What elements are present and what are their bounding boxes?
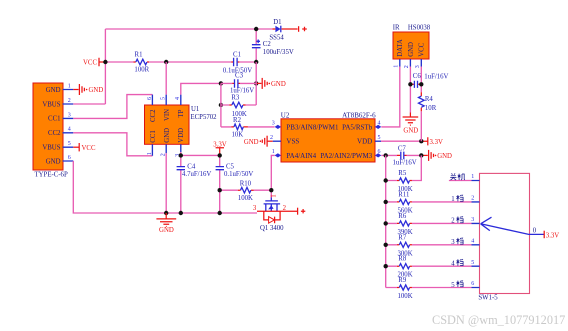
wire pin4 CC2 to U1 pin1 [73,133,152,156]
svg-text:5: 5 [161,97,167,100]
svg-text:R3: R3 [231,95,240,102]
svg-text:ECP5702: ECP5702 [191,114,218,121]
wire top rail y29 [105,28,272,30]
svg-text:C3: C3 [235,73,244,80]
svg-text:C1: C1 [233,51,241,58]
wire IR VCC col [420,67,422,142]
ground earth (IR GND) [403,113,419,135]
terminal P+ (top right) [299,26,307,32]
U1 pin numbers (rotated) [147,97,181,157]
svg-text:Q1 3400: Q1 3400 [260,225,284,232]
svg-text:0.1uF/50V: 0.1uF/50V [224,171,253,178]
svg-text:10R: 10R [425,105,437,112]
resistor R4 10R [419,92,437,112]
svg-text:PA4/AIN4: PA4/AIN4 [286,152,316,160]
svg-text:5: 5 [471,260,474,266]
svg-text:R9: R9 [398,277,407,284]
U1 pin names (rotated) [150,109,185,143]
svg-text:AT8B62F-6: AT8B62F-6 [342,111,376,119]
ir-receiver IR HS0038 body [393,32,429,59]
svg-text:6: 6 [147,97,153,100]
power port 3.3V (switch right) [544,231,559,240]
svg-text:TYPE-C-6P: TYPE-C-6P [35,172,68,179]
wire pin3 CC1 to U1 pin6 [73,95,152,119]
svg-text:6: 6 [471,281,474,287]
wire U2 pin6 row [381,154,421,156]
wire ladder spine x385.7 [385,155,387,287]
svg-text:VDD: VDD [357,138,372,146]
svg-text:100K: 100K [398,293,413,300]
wire selector arrow to pin3 [481,217,544,235]
svg-text:5: 5 [378,135,381,141]
svg-text:R5: R5 [398,170,407,177]
connector pin stubs [63,90,74,162]
svg-text:R4: R4 [425,96,434,103]
svg-text:100R: 100R [134,66,149,73]
resistor R9 100K [386,277,472,300]
switch SW1-5 body [480,173,530,293]
svg-text:3: 3 [68,112,71,118]
wire switch pin1 segment [449,180,472,182]
svg-text:3: 3 [415,65,421,68]
svg-text:HS0038: HS0038 [408,25,431,32]
label 2档 (row3) [451,216,463,225]
svg-text:C5: C5 [226,164,235,171]
svg-text:CSDN @wm_1077912017: CSDN @wm_1077912017 [432,313,565,327]
svg-text:CC1: CC1 [48,116,60,123]
svg-text:4.7uF/16V: 4.7uF/16V [182,171,211,178]
switch pin stubs [472,181,480,288]
U2 pin 5 stub [375,140,381,142]
wire VCC rail y62 [105,61,256,63]
svg-text:1uF/16V: 1uF/16V [230,88,254,95]
svg-text:3.3V: 3.3V [430,139,443,146]
svg-text:R8: R8 [398,256,407,263]
resistor R7 300K [386,234,472,257]
resistor R6 390K [386,213,472,236]
connector pin names [42,87,61,166]
svg-text:3.3V: 3.3V [546,232,559,239]
svg-text:2: 2 [283,205,287,212]
svg-text:PB3/AIN8/PWM1: PB3/AIN8/PWM1 [286,123,339,131]
wire U1 GND col down to rail [165,153,167,213]
label 5档 (row6) [451,280,463,289]
power port VCC (connector pin5) [73,143,96,152]
svg-text:2: 2 [471,196,474,202]
wire pin2 VBUS [73,103,105,105]
power port GND (connector pin1) [73,84,103,95]
svg-text:GND: GND [437,153,452,160]
capacitor C6 1uF/16V [411,73,448,88]
U1 bottom pin stubs [152,144,180,156]
switch pin numbers [471,174,474,287]
svg-text:3: 3 [253,205,257,212]
diode Q1 body diode [264,211,280,223]
svg-text:VCC: VCC [82,145,96,152]
svg-text:3: 3 [451,239,455,246]
terminal + (right of Q1) [298,208,306,215]
resistor R1 [134,51,150,73]
svg-text:1: 1 [271,194,278,197]
svg-text:4: 4 [68,127,71,133]
connector pin numbers [68,83,71,160]
svg-text:1: 1 [394,65,400,68]
wire IR GND col [409,67,411,113]
svg-text:GND: GND [46,158,61,165]
wire vertical x220.9 (C3 left to R2) [220,83,222,127]
svg-text:4: 4 [451,261,455,268]
capacitor C3 1uF/16V [221,73,256,95]
svg-text:100K: 100K [238,195,253,202]
svg-text:SW1-5: SW1-5 [478,294,498,301]
svg-text:PA5/RSTb: PA5/RSTb [342,123,373,131]
svg-text:GND: GND [408,42,415,57]
svg-text:2: 2 [68,98,71,104]
capacitor C1 [223,51,252,74]
svg-text:GND: GND [164,128,171,143]
power port GND (right of C3) [256,78,286,89]
wire vertical x256.2 (C1 right down to R3) [255,62,257,105]
svg-text:U2: U2 [281,111,290,119]
svg-text:GND: GND [271,81,286,88]
power port 3.3V (right of VDD) [421,137,443,146]
IR pin stubs [400,59,422,67]
power port 3.3V (above C5) [213,141,226,155]
label 3档 (row4) [451,238,463,247]
diode D1 SS54 [269,19,297,41]
svg-text:R6: R6 [398,213,407,220]
svg-text:4: 4 [471,239,474,245]
resistor R10 100K [220,180,272,202]
resistor R3 100K [221,95,256,119]
svg-text:1: 1 [68,83,71,89]
node dots U1 area [179,153,183,157]
svg-text:VCC: VCC [83,60,97,67]
svg-text:VDD: VDD [178,128,185,143]
svg-text:CC2: CC2 [150,109,157,122]
svg-text:100uF/35V: 100uF/35V [263,49,294,56]
wire U2 pin4 to IR DATA [381,67,400,127]
svg-text:CC1: CC1 [150,130,157,142]
power port GND (U2 VSS) mirrored [244,136,273,147]
svg-text:4: 4 [175,97,181,100]
node dots U2 right [384,153,388,157]
label 4档 (row5) [451,259,463,268]
node dots C6 [408,82,412,86]
svg-text:C6: C6 [413,73,422,80]
svg-text:2: 2 [404,65,410,68]
svg-text:PA2/AIN2/PWM3: PA2/AIN2/PWM3 [320,152,372,160]
mcu U2 AT8B62F-6 body [281,119,375,162]
svg-text:C7: C7 [398,145,407,152]
label 关机 (row1) [450,173,465,180]
connector J TYPE-C-6P body [33,83,63,170]
IR pin numbers (rotated) [394,65,422,68]
U2 pin 2 stub [273,140,281,142]
svg-text:GND: GND [159,227,174,234]
node dots ladder [384,178,388,182]
svg-text:C2: C2 [263,41,272,48]
svg-text:VIN: VIN [164,109,171,121]
transistor Q1 3400 (N-MOSFET) [264,194,281,211]
svg-text:5: 5 [451,282,455,289]
svg-text:SS54: SS54 [269,34,284,41]
wire VBUS riser x105.4 [104,29,106,104]
resistor R11 560K [386,191,472,214]
svg-text:IR: IR [393,25,400,32]
capacitor C2 100uF/35V [252,29,294,62]
U2 pin 1 arrow [275,153,281,157]
svg-text:R10: R10 [240,180,252,187]
wire U1 VDD col [181,152,220,213]
wire U2 pin1 to gate riser [271,155,275,198]
svg-text:VBUS: VBUS [42,145,60,152]
wire U1 TP to C3 row [181,83,221,94]
svg-text:1uF/16V: 1uF/16V [393,159,417,166]
svg-text:2: 2 [270,135,273,141]
wire U2 pin5 VDD to 3.3V [381,140,421,142]
svg-text:CC2: CC2 [48,130,61,137]
svg-text:U1: U1 [191,106,199,113]
svg-text:3: 3 [272,121,275,127]
U2 pin 4 arrow [375,125,381,129]
power port GND (right of C7) [421,150,452,161]
op-chip U1 ECP5702 body [145,105,190,144]
capacitor C7 1uF/16V [393,145,417,166]
svg-text:GND: GND [89,87,104,94]
svg-text:R11: R11 [398,191,409,198]
wire U1 VIN riser [165,62,167,95]
svg-text:GND: GND [46,87,61,94]
wire pin6 GND down-left rail [73,161,257,213]
svg-text:1: 1 [451,196,454,203]
svg-text:DATA: DATA [397,39,404,57]
svg-text:R2: R2 [233,117,242,124]
resistor R2 10K [221,117,275,139]
label 1档 (row2) [451,195,463,204]
capacitor C4 4.7uF/16V [177,164,212,179]
svg-text:VSS: VSS [286,138,299,146]
svg-text:2: 2 [451,218,455,225]
U2 pin 6 arrow [375,153,381,157]
U2 pin names [286,123,372,160]
IR pin names (rotated) [397,39,426,57]
resistor R8 200K [386,256,472,279]
U1 top pin stubs [152,95,180,105]
capacitor C5 0.1uF/50V [216,155,254,213]
svg-text:R1: R1 [135,51,143,58]
svg-text:TP: TP [178,109,185,117]
resistor R5 100K [386,155,422,193]
svg-text:1uF/16V: 1uF/16V [424,74,448,81]
svg-text:3: 3 [471,217,474,223]
svg-text:5: 5 [68,141,71,147]
svg-text:1: 1 [272,149,275,155]
svg-text:VCC: VCC [419,42,426,56]
svg-text:0: 0 [533,228,537,235]
U2 pin numbers [270,121,381,156]
ground earth (bottom rail) [156,213,176,234]
wire Q1 source/drain rail (red) [257,210,297,212]
svg-text:1: 1 [147,152,153,155]
svg-text:GND: GND [244,139,259,146]
svg-text:C4: C4 [187,164,196,171]
svg-text:R7: R7 [398,234,407,241]
power port VCC (top left) [83,58,105,67]
svg-text:1: 1 [471,174,474,180]
U2 pin 3 arrow [275,125,281,129]
svg-text:GND: GND [403,128,418,135]
svg-text:D1: D1 [273,19,281,26]
svg-text:10K: 10K [231,131,243,138]
svg-text:6: 6 [68,155,71,161]
svg-text:VBUS: VBUS [42,101,60,108]
node junction dots top area [254,27,258,31]
